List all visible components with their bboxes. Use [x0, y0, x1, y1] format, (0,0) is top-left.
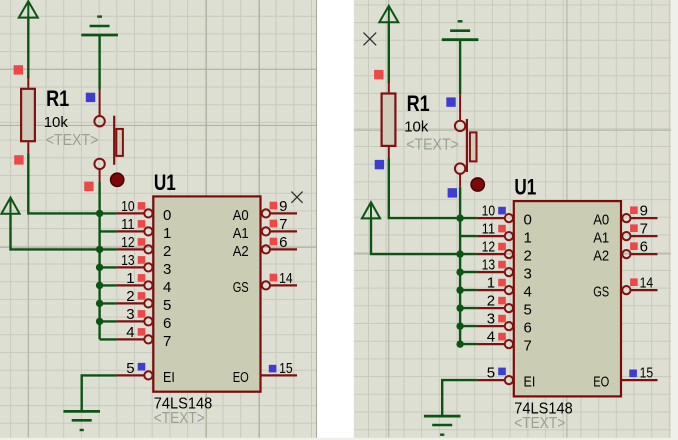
wire: R1 bottom to node (c1)	[28, 154, 116, 214]
pin 7 A1 (c2)	[622, 232, 657, 240]
junction dot row 3 (c2)	[456, 268, 463, 275]
right screenshot margin	[671, 0, 678, 440]
svg-text:14: 14	[640, 275, 654, 292]
pin 9 A0 (c2)	[622, 214, 657, 222]
svg-text:14: 14	[279, 270, 293, 287]
svg-text:EI: EI	[163, 369, 175, 386]
svg-text:7: 7	[163, 333, 171, 350]
logic marker pin 4 (c2)	[498, 333, 506, 341]
power symbol +V top (c2)	[379, 6, 398, 23]
logic marker pin 3 (c2)	[498, 315, 506, 323]
logic marker pin 9 (c2)	[630, 206, 638, 214]
pin 15 EO (c2)	[621, 379, 658, 381]
svg-text:R1: R1	[407, 91, 430, 116]
wire: button to node (c2)	[459, 187, 461, 218]
svg-text:3: 3	[126, 306, 134, 323]
logic marker R1 bottom (c1)	[14, 155, 23, 164]
svg-text:A0: A0	[233, 207, 249, 224]
svg-text:2: 2	[126, 288, 134, 305]
svg-text:1: 1	[524, 230, 532, 247]
pin 4 input 7 (c1)	[116, 335, 152, 343]
logic marker pin 1 (c2)	[498, 279, 506, 287]
logic marker pin 13 (c1)	[138, 256, 146, 264]
svg-text:<TEXT>: <TEXT>	[406, 137, 459, 154]
ground symbol top (c1)	[81, 17, 118, 35]
svg-text:13: 13	[482, 257, 496, 274]
junction dot row 4 (c2)	[456, 286, 463, 293]
marker cross near top power (c2)	[364, 33, 377, 46]
left panel right border	[316, 0, 317, 440]
svg-text:3: 3	[163, 261, 171, 278]
svg-text:<TEXT>: <TEXT>	[154, 410, 205, 427]
svg-text:4: 4	[163, 279, 171, 296]
push button bottom pin (c1)	[99, 169, 101, 182]
wire branch to input 1 (c2)	[460, 235, 477, 237]
right panel background	[354, 0, 678, 440]
logic marker pin 5 EI (c1)	[138, 363, 146, 371]
svg-text:13: 13	[121, 252, 135, 269]
svg-text:<TEXT>: <TEXT>	[514, 415, 565, 432]
svg-text:A2: A2	[233, 243, 249, 260]
push button terminal circle top (c2)	[455, 121, 465, 131]
pin 10 input 0 (c2)	[477, 214, 513, 222]
svg-text:5: 5	[487, 365, 495, 382]
logic marker button bottom (c1)	[84, 182, 93, 191]
logic marker R1 bottom (c2)	[375, 160, 384, 169]
svg-text:A0: A0	[593, 212, 609, 229]
wire: EI to ground (c1)	[82, 375, 117, 411]
wire branch to input 5 (c1)	[100, 302, 117, 304]
logic marker pin 11 (c1)	[138, 220, 146, 228]
junction dot row 6 (c1)	[96, 318, 103, 325]
svg-text:7: 7	[279, 216, 287, 233]
svg-text:12: 12	[482, 239, 496, 256]
svg-text:4: 4	[487, 329, 495, 346]
pin 9 A0 (c1)	[262, 209, 297, 217]
input bus wire (c2)	[459, 218, 461, 344]
wire: EI to ground (c2)	[442, 380, 477, 416]
svg-text:12: 12	[121, 234, 135, 251]
resistor R1 body (c2)	[382, 94, 396, 146]
pin 12 input 2 (c2)	[477, 250, 513, 258]
pin 13 input 3 (c2)	[477, 268, 513, 276]
wire branch to input 4 (c2)	[460, 289, 477, 291]
logic marker pin 1 (c1)	[138, 274, 146, 282]
pin 10 input 0 (c1)	[116, 209, 152, 217]
logic marker pin 12 (c1)	[138, 238, 146, 246]
right panel grid	[354, 0, 678, 440]
push button terminal circle bottom (c1)	[94, 159, 104, 169]
svg-text:EO: EO	[593, 374, 609, 391]
chip U1 74LS148 body (c1)	[153, 196, 260, 391]
bottom screenshot margin	[0, 438, 678, 440]
logic marker pin 6 (c2)	[630, 242, 638, 250]
wire: left power to bus (c1)	[11, 214, 100, 250]
left panel grid	[0, 0, 317, 440]
left panel background	[0, 0, 317, 440]
svg-text:1: 1	[163, 225, 171, 242]
push button state dot (c1)	[111, 173, 124, 186]
logic marker pin 11 (c2)	[498, 225, 506, 233]
wire: left power to bus (c2)	[371, 218, 460, 254]
logic marker pin 9 (c1)	[270, 202, 278, 210]
resistor R1 pins (c2)	[388, 81, 390, 159]
logic marker pin 14 GS (c1)	[270, 274, 278, 282]
pin 7 A1 (c1)	[262, 227, 297, 235]
junction dot row 3 (c1)	[96, 264, 103, 271]
marker cross near pin 9 (c1)	[291, 192, 302, 203]
pin 12 input 2 (c1)	[116, 245, 152, 253]
pin 11 input 1 (c2)	[477, 232, 513, 240]
chip U1 74LS148 body (c2)	[514, 201, 621, 396]
pin 3 input 6 (c2)	[477, 322, 513, 330]
pin 13 input 3 (c1)	[116, 263, 152, 271]
svg-text:15: 15	[279, 360, 293, 377]
wire: button to node (c1)	[98, 182, 100, 213]
svg-text:<TEXT>: <TEXT>	[46, 132, 99, 149]
pin 6 A2 (c2)	[622, 250, 657, 258]
wire branch to input 6 (c2)	[460, 325, 477, 327]
junction dot row 4 (c1)	[96, 282, 103, 289]
svg-text:A1: A1	[233, 225, 249, 242]
wire branch to input 6 (c1)	[100, 320, 117, 322]
svg-text:U1: U1	[514, 175, 536, 200]
svg-text:4: 4	[524, 284, 532, 301]
push button terminal circle top (c1)	[94, 116, 104, 126]
push button actuator (c1)	[114, 116, 123, 165]
push button terminal circle bottom (c2)	[455, 163, 465, 173]
svg-text:11: 11	[482, 221, 496, 238]
svg-text:3: 3	[524, 266, 532, 283]
svg-text:10k: 10k	[404, 119, 429, 136]
logic marker button bottom (c2)	[448, 188, 457, 197]
wire branch to input 2 (c2)	[460, 253, 477, 255]
svg-text:1: 1	[487, 275, 495, 292]
wire branch to input 3 (c1)	[100, 266, 117, 268]
logic marker pin 10 (c1)	[138, 202, 146, 210]
push button top pin (c2)	[459, 94, 461, 120]
wire: ground top to button (c1)	[98, 35, 100, 90]
resistor R1 pins (c1)	[27, 77, 29, 155]
push button state dot (c2)	[471, 178, 484, 191]
pin 2 input 5 (c2)	[477, 304, 513, 312]
pin 2 input 5 (c1)	[116, 299, 152, 307]
logic marker button top (c1)	[86, 93, 95, 102]
push button bottom pin (c2)	[459, 174, 461, 187]
svg-text:5: 5	[163, 297, 171, 314]
logic marker pin 14 GS (c2)	[630, 278, 638, 286]
svg-text:15: 15	[640, 365, 654, 382]
pin 6 A2 (c1)	[262, 245, 297, 253]
pin 3 input 6 (c1)	[116, 317, 152, 325]
svg-text:6: 6	[524, 320, 532, 337]
pin 5 EI (c1)	[116, 371, 152, 379]
svg-text:5: 5	[126, 360, 134, 377]
svg-text:5: 5	[524, 302, 532, 319]
logic marker pin 13 (c2)	[498, 261, 506, 269]
svg-text:GS: GS	[593, 284, 609, 301]
logic marker button top (c2)	[446, 97, 455, 106]
svg-text:2: 2	[524, 248, 532, 265]
logic marker R1 top (c1)	[14, 65, 23, 74]
logic marker pin 5 EI (c2)	[498, 368, 506, 376]
power symbol +V top (c1)	[19, 1, 38, 18]
svg-text:7: 7	[640, 221, 648, 238]
logic marker pin 7 (c2)	[630, 224, 638, 232]
junction dot bus corner pin7 (c2)	[456, 340, 463, 347]
push button top pin (c1)	[99, 90, 101, 116]
wire: power top to R1 (c1)	[27, 18, 29, 79]
logic marker pin 12 (c2)	[498, 243, 506, 251]
junction dot row 5 (c1)	[96, 300, 103, 307]
logic marker R1 top (c2)	[374, 70, 383, 79]
svg-text:6: 6	[279, 234, 287, 251]
power symbol +V left (c1)	[1, 197, 19, 214]
wire branch to input 3 (c2)	[460, 271, 477, 273]
junction dot row 0 (c1)	[96, 210, 103, 217]
pin 1 input 4 (c1)	[116, 281, 152, 289]
wire branch to input 2 (c1)	[100, 248, 117, 250]
wire: R1 bottom to node (c2)	[389, 158, 477, 218]
pin 1 input 4 (c2)	[477, 286, 513, 294]
logic marker pin 15 EO (c1)	[269, 365, 277, 373]
pin 14 GS (c1)	[262, 281, 297, 289]
push button actuator (c2)	[467, 119, 477, 172]
svg-text:3: 3	[487, 311, 495, 328]
logic marker pin 15 EO (c2)	[629, 370, 637, 378]
svg-text:10: 10	[121, 198, 135, 215]
input bus wire (c1)	[98, 213, 100, 339]
ground symbol top (c2)	[442, 21, 479, 39]
svg-text:EO: EO	[233, 369, 249, 386]
logic marker pin 4 (c1)	[138, 328, 146, 336]
svg-text:10k: 10k	[44, 114, 69, 131]
pin 15 EO (c1)	[261, 374, 298, 376]
wire: power top to R1 (c2)	[388, 22, 390, 83]
svg-text:A1: A1	[593, 230, 609, 247]
junction dot row 2 (c1)	[96, 246, 103, 253]
wire branch to input 4 (c1)	[100, 284, 117, 286]
svg-text:EI: EI	[524, 374, 536, 391]
svg-text:7: 7	[524, 338, 532, 355]
logic marker pin 2 (c1)	[138, 292, 146, 300]
svg-text:10: 10	[482, 203, 496, 220]
svg-text:6: 6	[640, 239, 648, 256]
svg-text:GS: GS	[233, 279, 249, 296]
resistor R1 body (c1)	[21, 89, 35, 141]
svg-text:U1: U1	[154, 170, 176, 195]
svg-text:11: 11	[121, 216, 135, 233]
svg-text:2: 2	[163, 243, 171, 260]
pin 4 input 7 (c2)	[477, 340, 513, 348]
pin 5 EI (c2)	[477, 376, 513, 384]
svg-text:R1: R1	[46, 86, 69, 111]
svg-text:0: 0	[163, 207, 171, 224]
junction dot row 2 (c2)	[456, 250, 463, 257]
svg-text:2: 2	[487, 293, 495, 310]
wire branch to input 7 (c1)	[100, 338, 117, 340]
svg-text:1: 1	[126, 270, 134, 287]
pin 11 input 1 (c1)	[116, 227, 152, 235]
svg-text:9: 9	[640, 203, 648, 220]
ground symbol bottom (c1)	[63, 411, 100, 430]
pin 14 GS (c2)	[622, 286, 657, 294]
junction dot row 6 (c2)	[456, 322, 463, 329]
junction dot row 0 (c2)	[456, 214, 463, 221]
power symbol +V left (c2)	[362, 202, 380, 219]
svg-text:6: 6	[163, 315, 171, 332]
wire branch to input 1 (c1)	[100, 230, 117, 232]
svg-text:0: 0	[524, 212, 532, 229]
logic marker pin 3 (c1)	[138, 310, 146, 318]
logic marker pin 10 (c2)	[498, 207, 506, 215]
svg-text:A2: A2	[593, 248, 609, 265]
ground symbol bottom (c2)	[424, 416, 461, 435]
wire branch to input 7 (c2)	[460, 343, 477, 345]
logic marker pin 7 (c1)	[270, 220, 278, 228]
wire: ground top to button (c2)	[459, 40, 461, 94]
svg-text:9: 9	[279, 198, 287, 215]
logic marker pin 2 (c2)	[498, 297, 506, 305]
white gap between screenshots	[317, 0, 354, 440]
logic marker pin 6 (c1)	[270, 238, 278, 246]
svg-text:4: 4	[126, 324, 134, 341]
wire branch to input 5 (c2)	[460, 307, 477, 309]
junction dot row 5 (c2)	[456, 304, 463, 311]
